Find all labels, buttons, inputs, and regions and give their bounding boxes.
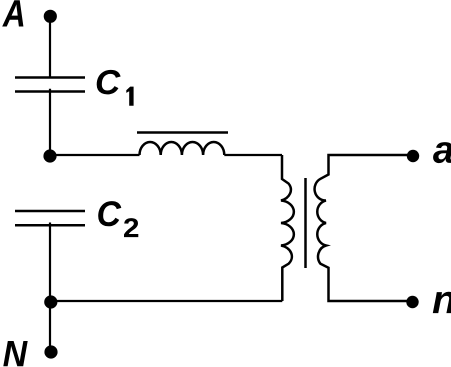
transformer primary winding (281, 155, 294, 301)
transformer secondary winding (315, 155, 411, 301)
transformer core (304, 178, 307, 268)
node bottom (C2-primary junction) (44, 295, 57, 308)
label A (2, 0, 23, 26)
wire C1 to mid node (49, 89, 51, 156)
wire bottom node to transformer primary (50, 300, 282, 302)
terminal a (407, 150, 419, 162)
label C1 (97, 70, 121, 95)
node mid (C1-C2 junction) (43, 149, 56, 162)
terminal A (44, 10, 57, 23)
wire inductor to transformer (224, 154, 282, 156)
label N (3, 341, 27, 366)
inductor core bar (137, 131, 228, 134)
label a (433, 142, 451, 163)
wire C2 to bottom node to N (49, 223, 51, 350)
terminal n (406, 296, 418, 308)
inductor L (140, 142, 225, 155)
terminal N (44, 345, 57, 358)
wire mid node to inductor (50, 154, 140, 156)
capacitor C1 (15, 78, 85, 92)
label C2 (98, 201, 121, 226)
capacitor C2 (15, 211, 85, 225)
wire A to C1 (49, 16, 51, 77)
label n (433, 292, 451, 313)
